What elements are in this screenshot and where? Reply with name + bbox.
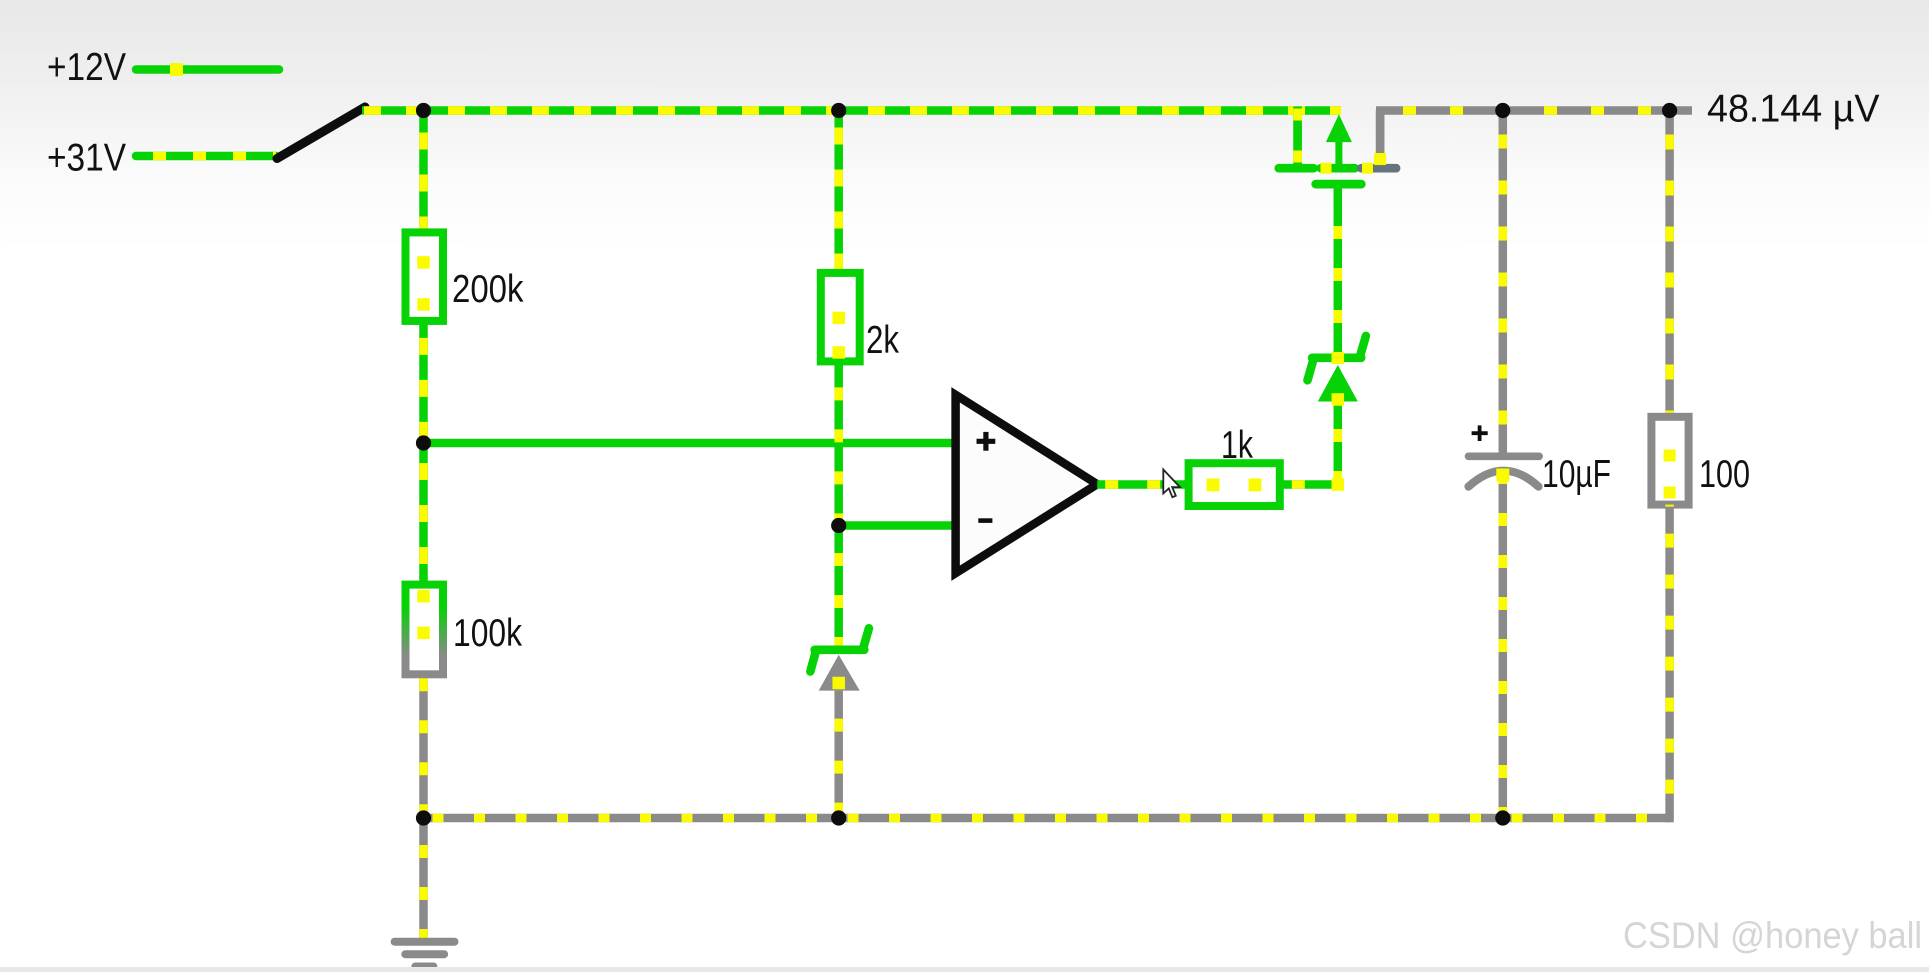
wire output rail [1376, 106, 1692, 115]
wire top rail +31V net [362, 106, 1341, 115]
wire - node to zener D2 [834, 526, 843, 650]
wire 200k bottom lead [419, 321, 428, 443]
wire 2k bottom lead to - node [834, 361, 843, 525]
wire D1 to MOSFET gate [1334, 184, 1343, 358]
svg-text:100k: 100k [453, 612, 523, 655]
svg-text:+12V: +12V [47, 46, 126, 89]
op-amp U1 [956, 395, 1098, 573]
junction node bottom-zener [831, 810, 846, 825]
wire op-amp output [1097, 480, 1188, 489]
wire +31V supply stub [136, 152, 276, 161]
MOSFET Q1 source lead [1293, 107, 1302, 169]
svg-text:1k: 1k [1221, 424, 1254, 467]
junction node rail-capacitor [1495, 103, 1510, 118]
junction node rail-200k [416, 103, 431, 118]
wire D2 anode to bottom rail [834, 691, 843, 818]
svg-text:CSDN @honey ball: CSDN @honey ball [1623, 915, 1922, 956]
zener D2 cathode bar [815, 645, 865, 654]
wire bottom ground rail [424, 814, 1671, 823]
wire 200k top lead [419, 111, 428, 233]
wire 100k top lead [419, 443, 428, 585]
junction node bottom-capacitor [1495, 810, 1510, 825]
capacitor C1 top plate [1469, 452, 1540, 460]
resistor R3 2k [821, 273, 860, 362]
wire - node to op-amp - input [839, 521, 956, 530]
resistor R5 100 [1651, 417, 1688, 505]
resistor R4 1k [1189, 463, 1280, 506]
wire ground lead [419, 818, 428, 939]
MOSFET Q1 channel mid segment [1321, 164, 1355, 173]
MOSFET Q1 drain lead [1376, 111, 1385, 166]
svg-text:2k: 2k [866, 319, 900, 362]
MOSFET Q1 bulk arrow [1335, 140, 1342, 168]
wire 100 top lead [1665, 111, 1674, 417]
wire capacitor bottom lead [1499, 477, 1508, 818]
svg-text:10µF: 10µF [1542, 453, 1611, 496]
capacitor C1 bottom plate [1469, 471, 1539, 487]
resistor R1 200k [406, 232, 444, 321]
node A junction [416, 435, 431, 450]
svg-text:+31V: +31V [47, 137, 126, 180]
junction node rail-100 [1662, 103, 1677, 118]
wire corner up to zener D1 [1334, 402, 1343, 489]
svg-text:48.144 µV: 48.144 µV [1707, 88, 1880, 131]
MOSFET Q1 gate plate [1316, 180, 1362, 189]
svg-text:100: 100 [1699, 453, 1750, 496]
mouse cursor [1163, 470, 1180, 498]
wire 1k to corner [1280, 480, 1338, 489]
wire capacitor top lead [1499, 111, 1508, 453]
svg-text:200k: 200k [452, 268, 524, 311]
zener D1 cathode bar [1312, 353, 1361, 362]
junction node - input [831, 518, 846, 533]
junction node rail-2k [831, 103, 846, 118]
wire +12V supply stub [136, 65, 279, 74]
MOSFET Q1 channel drain segment [1361, 164, 1396, 173]
switch SW1 lever (+31V selected) [277, 107, 365, 159]
ground symbol [395, 938, 455, 946]
wire 100k bottom lead [419, 674, 428, 818]
junction node bottom-100k [416, 810, 431, 825]
wire node A to op-amp + input [424, 439, 956, 448]
wire 2k top lead [834, 111, 843, 273]
capacitor C1 polarity mark + [1472, 431, 1488, 435]
wire 100 bottom lead [1665, 505, 1670, 818]
zener D1 body [1318, 365, 1358, 402]
MOSFET Q1 channel source segment [1279, 164, 1314, 173]
zener D2 body (reverse conducting) [819, 655, 860, 691]
